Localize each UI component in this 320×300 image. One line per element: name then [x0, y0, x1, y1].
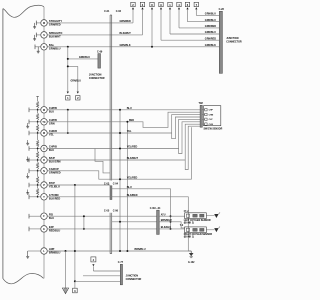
wire BLU from L4 to T/M sensor pin 1 — [47, 109, 200, 111]
svg-text:CLM: CLM — [209, 124, 214, 126]
svg-text:GRN/RED: GRN/RED — [120, 20, 131, 23]
wire to bottom junction connector pin 1 — [93, 270, 120, 272]
wire GRN/BLU to junction connector — [188, 21, 220, 23]
indicator lamp L2 (SPDGGITO) — [41, 32, 48, 39]
svg-text:CHP/B: CHP/B — [49, 145, 57, 149]
indicator lamp L12 (FID) — [41, 213, 48, 220]
wire GRN/BLU branch to small junction connector — [68, 58, 98, 60]
lamp left stub + terminal — [29, 121, 41, 123]
fuse feed box 4 (top) — [177, 2, 181, 6]
svg-text:SPDGGITO: SPDGGITO — [49, 31, 62, 35]
fuse feed box 1 (top) — [168, 2, 172, 6]
vertical wire from node at (127.4,121.8) down to bottom rail — [126, 122, 128, 251]
svg-text:YEL/RED: YEL/RED — [127, 146, 138, 149]
lamp L13 left stub + terminal — [29, 228, 41, 230]
speed sensor pin 4 — [202, 123, 205, 125]
wire GRN/BLK from L3 across to junction connector — [47, 46, 219, 48]
ground G-102 — [190, 251, 192, 253]
speed sensor component box — [204, 106, 221, 126]
indicator lamp L4 (CHP/B) — [41, 107, 48, 114]
svg-text:2: 2 — [77, 96, 79, 100]
vertical wire from node at (120,109.8) down to bottom rail — [119, 110, 121, 251]
svg-text:BLK/BLU: BLK/BLU — [161, 227, 172, 229]
svg-text:GRN/BLU: GRN/BLU — [205, 31, 216, 34]
wire ATU to left oxygen sensor — [159, 215, 184, 217]
arrow into box — [169, 7, 171, 9]
connector bar T/M (speed sensor) — [200, 105, 202, 127]
svg-text:B/UP: B/UP — [49, 156, 55, 160]
wire from L7, cascade to T/M pin 5 — [47, 119, 200, 148]
svg-text:ATU: ATU — [161, 213, 166, 216]
speed sensor pin 1 — [202, 109, 205, 111]
svg-text:BRN/BLU: BRN/BLU — [135, 248, 146, 251]
indicator lamp L3 (BAL) — [41, 44, 48, 51]
svg-text:6: 6 — [187, 3, 189, 7]
svg-text:B: B — [43, 46, 45, 49]
svg-text:RED: RED — [129, 119, 134, 122]
lamp L14 left stub + ground — [28, 250, 41, 252]
sensor connector row 2 wire — [112, 221, 157, 223]
svg-text:C-06: C-06 — [113, 209, 119, 212]
indicator lamp L10 (P/UP) — [41, 182, 48, 189]
indicator lamp L13 (E2P) — [41, 226, 48, 233]
svg-text:(BANK 2): (BANK 2) — [184, 222, 194, 225]
indicator lamp L7 (CHP/B) — [41, 145, 48, 152]
svg-text:C-04: C-04 — [113, 182, 119, 185]
arrow into box — [178, 7, 180, 9]
wire BLK/BLU to right oxygen sensor — [159, 228, 184, 230]
cluster ground symbol — [27, 157, 29, 159]
svg-text:E2P: E2P — [49, 225, 54, 229]
svg-text:7: 7 — [196, 3, 198, 7]
fuse feed box 6 (top) — [185, 2, 189, 6]
cluster ground symbol — [27, 190, 29, 192]
wire GRN/BLU to junction connector — [196, 14, 219, 16]
wire drop to page connector 2 — [77, 66, 79, 91]
wire from L8, cascade to T/M pin 7 — [47, 124, 200, 160]
svg-text:2: 2 — [132, 3, 134, 7]
bridge wire between L4 and L6 wires — [67, 110, 69, 133]
svg-text:C-01: C-01 — [104, 10, 110, 13]
svg-text:D: D — [43, 148, 45, 151]
wire from L11 down to ground G-102 — [47, 197, 191, 251]
lamp left stub + terminal — [29, 170, 41, 172]
lamp left stub + terminal — [29, 148, 41, 150]
lamp left stub + terminal — [29, 184, 41, 186]
chassis ground symbol — [62, 288, 68, 294]
svg-text:C-69: C-69 — [97, 51, 103, 54]
svg-text:4: 4 — [93, 258, 95, 262]
wire YEL from L6, cascade to T/M pin 3 — [47, 115, 200, 133]
svg-text:LEFT OXYGEN SENSOR: LEFT OXYGEN SENSOR — [184, 220, 211, 222]
svg-text:BLK/RED: BLK/RED — [127, 194, 138, 197]
svg-text:M: M — [43, 22, 45, 25]
wire GRN/RED from L1 to feed 1 — [47, 22, 133, 24]
wire GRN/BLU drop from node A — [67, 47, 69, 91]
wire to bottom junction connector pin 2 — [83, 275, 120, 277]
wire from L10 down to sensor connector row 1 — [47, 184, 110, 186]
arrow into box — [160, 7, 162, 9]
cascade step below L8 corner — [185, 126, 200, 169]
page connector box 3 — [73, 288, 78, 293]
arrow into box — [151, 7, 153, 9]
wire from L9, step down and cascade to T/M bottom pin — [47, 127, 191, 179]
svg-text:CHP/B: CHP/B — [49, 118, 57, 122]
fuse feed box 8 (top) — [150, 2, 154, 6]
cluster ground symbol — [27, 140, 29, 142]
svg-text:GRN/BLU: GRN/BLU — [79, 56, 90, 59]
lamp left stub + terminal — [29, 196, 41, 198]
indicator lamp L11 (C/TURN) — [41, 194, 48, 201]
indicator lamp L8 (B/UP) — [41, 157, 48, 164]
svg-text:BLK/WHT: BLK/WHT — [120, 32, 132, 35]
svg-text:CONNECTOR: CONNECTOR — [226, 41, 242, 44]
svg-text:1: 1 — [169, 3, 171, 7]
svg-text:JUNCTION: JUNCTION — [226, 37, 238, 40]
indicator lamp L1 (STOGGITY) — [41, 20, 48, 27]
page connector box 1 — [66, 96, 70, 100]
indicator lamp L14 (LMP) — [41, 248, 48, 255]
cluster ground symbol — [27, 123, 29, 125]
fuse feed box 7 (top) — [194, 2, 198, 6]
svg-text:3: 3 — [142, 3, 144, 7]
lamp L3 left stub + ground — [35, 46, 41, 48]
arrow into box — [132, 7, 134, 9]
svg-text:C-05: C-05 — [104, 209, 110, 212]
branch step-down wire — [95, 149, 110, 173]
wire from L13 to sensor connector — [47, 228, 156, 230]
svg-text:T/M: T/M — [199, 102, 203, 105]
svg-text:TC: TC — [42, 121, 45, 124]
svg-text:YEL: YEL — [127, 130, 132, 133]
lamp left stub + terminal — [29, 159, 41, 161]
bridge between L12 and L13 wires — [83, 216, 85, 229]
svg-text:CHP/B: CHP/B — [49, 106, 57, 110]
svg-text:M: M — [43, 132, 45, 135]
svg-text:BLU: BLU — [127, 186, 132, 189]
wire GRN/BLU lower branch to second drop — [68, 65, 78, 67]
svg-text:STOGGITY: STOGGITY — [49, 19, 62, 23]
svg-text:JUNCTION: JUNCTION — [89, 74, 102, 77]
indicator lamp L9 (CAR/UP) — [41, 168, 48, 175]
svg-text:8: 8 — [151, 3, 153, 7]
fuse feed box 3 (top) — [140, 2, 144, 6]
svg-text:C/TURN: C/TURN — [49, 193, 59, 197]
harness connector bar C-01/C-02 (upper segment) — [109, 15, 111, 181]
svg-text:GRN/BLU: GRN/BLU — [71, 81, 82, 83]
arrow into box — [141, 7, 143, 9]
tap on L10 wire down to bottom network — [74, 184, 76, 186]
drop to chassis ground (triangle) — [65, 251, 67, 288]
svg-text:(BANK 1): (BANK 1) — [184, 236, 194, 239]
fuse feed box 9 (top) — [159, 2, 163, 6]
svg-text:1: 1 — [67, 96, 69, 100]
speed sensor pin 3 — [202, 118, 205, 120]
svg-text:FID: FID — [49, 212, 53, 216]
svg-text:BAL: BAL — [49, 43, 55, 47]
svg-text:CLP: CLP — [209, 119, 214, 121]
page connector box 2 — [76, 96, 80, 100]
cascade step below L6 corner — [172, 117, 200, 139]
junction connector C-77 (bottom) — [120, 264, 122, 285]
svg-text:C-28: C-28 — [219, 8, 225, 11]
svg-text:CHM: CHM — [209, 114, 214, 116]
connector bar C-09 (bottom middle) — [157, 210, 160, 234]
instrument cluster outline (left boundary) — [3, 5, 44, 17]
wire GRN/RED to junction connector — [179, 27, 219, 29]
harness connector bar (lower segment) — [109, 213, 111, 254]
svg-text:YEL/RED: YEL/RED — [127, 176, 138, 179]
cluster ground symbol — [27, 173, 29, 175]
page connector box 4 (feed from above) — [91, 257, 96, 262]
junction connector C-28 (top right) — [219, 11, 222, 73]
svg-text:BRN/WHT: BRN/WHT — [161, 220, 173, 222]
bottom rail wire BRN/BLU from L14 to ground — [47, 250, 191, 252]
svg-text:CAR/UP: CAR/UP — [49, 167, 59, 171]
wire GRN from L5, cascade to T/M pin 2 — [47, 112, 200, 127]
svg-text:SW/CW SENSOR: SW/CW SENSOR — [204, 128, 223, 130]
arrow into box — [195, 7, 197, 9]
svg-text:GRN/BLU: GRN/BLU — [205, 19, 216, 22]
lamp L12 left stub + terminal — [29, 215, 41, 217]
arrow out of box 4 — [92, 264, 94, 266]
wire from L12 to sensor connector — [47, 215, 156, 217]
wire GRN/RED to junction connector — [161, 39, 219, 41]
svg-text:CHK/B: CHK/B — [49, 129, 57, 133]
illumination resistor ladder — [36, 95, 39, 97]
harness connector bar (middle segment) — [110, 186, 112, 200]
wire BLK/WHT from L2 to feed 2 — [47, 34, 142, 36]
svg-text:G-102: G-102 — [188, 262, 195, 264]
svg-text:3: 3 — [74, 289, 76, 293]
svg-text:RIGHT OXYGEN SENSOR: RIGHT OXYGEN SENSOR — [184, 234, 213, 236]
arrow into box — [186, 7, 188, 9]
svg-text:GRN/BLK: GRN/BLK — [120, 44, 131, 47]
svg-text:C-09 L-04: C-09 L-04 — [150, 207, 161, 210]
indicator lamp L5 (CHP/B) — [41, 119, 48, 126]
junction connector C-69 (small, middle) — [98, 54, 101, 69]
svg-text:C-77: C-77 — [118, 261, 124, 264]
svg-text:GRN/BLK: GRN/BLK — [205, 44, 216, 47]
wire BRN/WHT to right oxygen sensor — [159, 222, 184, 228]
svg-text:CHP: CHP — [209, 110, 214, 112]
svg-text:BLU: BLU — [127, 107, 132, 110]
svg-text:N: N — [43, 170, 45, 173]
cascade step below L7 corner — [179, 122, 201, 154]
svg-text:7-2: 7-2 — [180, 225, 184, 227]
svg-text:4: 4 — [178, 3, 180, 7]
lamp left stub + terminal — [29, 109, 41, 111]
arrow into page connector 2 — [77, 92, 79, 94]
lamp left stub + terminal — [29, 132, 41, 134]
wire GRN/BLU to junction connector — [170, 33, 219, 35]
arrow into page connector 1 — [67, 92, 69, 94]
svg-text:CONNECTOR: CONNECTOR — [89, 77, 105, 80]
lamp L2 left stub + terminal + ground — [36, 34, 40, 36]
svg-text:GRN/BLU: GRN/BLU — [205, 13, 216, 16]
svg-text:GRN/RED: GRN/RED — [205, 25, 216, 28]
cluster internal bus wire — [43, 7, 45, 20]
svg-text:C-02: C-02 — [116, 10, 122, 13]
svg-text:JUNCTION: JUNCTION — [126, 274, 139, 277]
svg-text:P/UP: P/UP — [49, 181, 55, 185]
svg-text:CONNECTOR: CONNECTOR — [126, 278, 142, 281]
wire to bottom junction connector pin 3 — [75, 280, 120, 282]
speed sensor pin 2 — [202, 114, 205, 116]
svg-text:R: R — [43, 159, 45, 162]
lamp L1 left stub + terminal + ground — [36, 22, 40, 24]
svg-text:GRN/RED: GRN/RED — [205, 37, 216, 40]
svg-text:M: M — [43, 109, 45, 112]
fuse feed box 2 (top) — [131, 2, 135, 6]
indicator lamp L6 (CHK/B) — [41, 130, 48, 137]
svg-text:BLK/WHT: BLK/WHT — [127, 157, 139, 160]
svg-text:LMP: LMP — [49, 247, 55, 251]
svg-text:9: 9 — [160, 3, 162, 7]
